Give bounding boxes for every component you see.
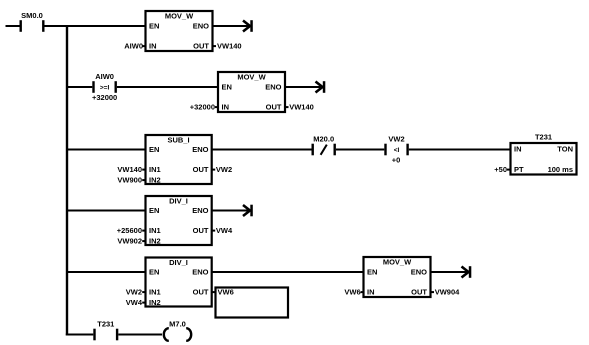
ENO arrow rung 5 (462, 266, 472, 278)
svg-text:DIV_I: DIV_I (169, 258, 188, 267)
svg-text:OUT: OUT (266, 103, 282, 112)
wire rung 2 to MOV_W (117, 86, 218, 88)
operand +50 at PT (494, 165, 510, 174)
wire ENO rung 2 (285, 86, 324, 88)
svg-text:EN: EN (149, 268, 159, 277)
svg-text:MOV_W: MOV_W (165, 12, 194, 21)
svg-text:+32000: +32000 (92, 93, 117, 102)
wire rung 5 from rail (67, 271, 146, 273)
operand VW2 at IN1 rung 5 (126, 288, 146, 297)
svg-text:100 ms: 100 ms (548, 165, 573, 174)
wire rung 6 from rail (66, 334, 94, 336)
wire rung 4 from rail (67, 210, 146, 212)
svg-text:VW6: VW6 (218, 288, 234, 297)
MOV_W block rung 5 (364, 257, 431, 297)
svg-text:IN1: IN1 (149, 226, 161, 235)
contact T231 (93, 320, 118, 341)
wire ENO DIV_I to MOV_W rung 5 (212, 271, 364, 273)
svg-text:EN: EN (367, 268, 377, 277)
svg-text:VW904: VW904 (435, 288, 460, 297)
operand VW140 at IN1 rung 3 (117, 165, 145, 174)
operand VW2 at OUT rung 3 (212, 165, 232, 174)
ENO arrow rung 4 (243, 205, 253, 217)
svg-text:VW902: VW902 (117, 237, 142, 246)
svg-text:ENO: ENO (265, 83, 281, 92)
svg-text:ENO: ENO (192, 268, 208, 277)
operand VW4 at OUT rung 4 (212, 226, 233, 235)
svg-text:+32000: +32000 (190, 103, 215, 112)
svg-text:MOV_W: MOV_W (237, 73, 266, 82)
operand edit rectangle (216, 288, 289, 318)
svg-text:VW2: VW2 (388, 135, 404, 144)
svg-text:T231: T231 (97, 320, 114, 329)
svg-text:EN: EN (149, 22, 159, 31)
left power rail stub rung 1 (6, 25, 20, 27)
DIV_I block rung 5 (146, 258, 212, 308)
svg-text:<I: <I (394, 147, 400, 154)
ENO arrow rung 2 (316, 81, 326, 93)
svg-text:IN2: IN2 (149, 237, 161, 246)
svg-text:IN: IN (514, 145, 522, 154)
wire ENO SUB_I to M20.0 (212, 149, 312, 151)
svg-text:+25600: +25600 (117, 226, 142, 235)
wire M20.0 to VW2 compare (336, 149, 384, 151)
branch rail (66, 25, 68, 335)
svg-text:VW2: VW2 (216, 165, 232, 174)
svg-text:IN2: IN2 (149, 298, 161, 307)
operand VW4 at IN2 rung 5 (126, 298, 146, 307)
wire T231 to coil (118, 334, 162, 336)
svg-text:SM0.0: SM0.0 (21, 11, 43, 20)
timer T231 TON block (511, 133, 577, 175)
svg-text:VW6: VW6 (344, 288, 360, 297)
svg-text:+50: +50 (494, 165, 507, 174)
svg-text:IN: IN (222, 103, 230, 112)
operand VW902 at IN2 rung 4 (117, 237, 145, 246)
svg-text:EN: EN (149, 145, 159, 154)
svg-text:OUT: OUT (193, 226, 209, 235)
svg-text:ENO: ENO (193, 22, 209, 31)
wire rung 1 to MOV_W (45, 25, 146, 27)
svg-text:IN: IN (367, 288, 375, 297)
svg-text:TON: TON (557, 145, 573, 154)
svg-text:MOV_W: MOV_W (383, 258, 412, 267)
svg-text:AIW0: AIW0 (124, 42, 143, 51)
svg-text:T231: T231 (535, 133, 552, 142)
coil M7.0 (164, 320, 191, 341)
svg-text:IN: IN (149, 42, 157, 51)
svg-text:DIV_I: DIV_I (169, 197, 188, 206)
wire VW2 compare to timer (409, 149, 511, 151)
operand VW140 at OUT rung 2 (285, 103, 314, 112)
svg-text:ENO: ENO (192, 206, 208, 215)
operand VW140 at OUT rung 1 (213, 42, 242, 51)
svg-text:OUT: OUT (193, 165, 209, 174)
operand VW900 at IN2 rung 3 (117, 176, 145, 185)
svg-text:VW2: VW2 (126, 288, 142, 297)
NC contact M20.0 (312, 135, 336, 156)
compare contact AIW0 >=I (92, 72, 117, 102)
operand VW6 at IN MOV_W rung 5 (344, 288, 364, 297)
svg-text:M20.0: M20.0 (313, 135, 334, 144)
svg-text:SUB_I: SUB_I (167, 136, 189, 145)
wire ENO rung 5 (431, 271, 471, 273)
svg-text:VW140: VW140 (217, 42, 242, 51)
svg-text:VW4: VW4 (126, 298, 143, 307)
operand VW904 at OUT rung 5 (431, 288, 461, 297)
svg-text:VW900: VW900 (117, 176, 142, 185)
svg-text:PT: PT (514, 165, 524, 174)
svg-text:+0: +0 (392, 156, 401, 165)
MOV_W block rung 2 (218, 72, 285, 112)
ENO arrow rung 1 (243, 20, 253, 32)
DIV_I block rung 4 (146, 196, 212, 246)
svg-text:IN1: IN1 (149, 165, 161, 174)
operand VW6 at OUT rung 5 (212, 288, 234, 297)
svg-text:AIW0: AIW0 (95, 72, 114, 81)
compare contact VW2 <I (384, 135, 409, 165)
svg-text:M7.0: M7.0 (169, 320, 186, 329)
svg-text:IN2: IN2 (149, 176, 161, 185)
svg-text:OUT: OUT (193, 288, 209, 297)
operand +25600 at IN1 rung 4 (117, 226, 146, 235)
svg-text:>=I: >=I (100, 85, 110, 92)
operand +32000 at IN rung 2 (190, 103, 219, 112)
wire rung 2 from rail (67, 86, 92, 88)
wire ENO rung 4 (212, 210, 252, 212)
SUB_I block rung 3 (146, 135, 212, 185)
svg-text:IN1: IN1 (149, 288, 161, 297)
wire rung 3 from rail (67, 149, 146, 151)
MOV_W block rung 1 (146, 11, 213, 51)
svg-text:VW140: VW140 (117, 165, 142, 174)
svg-text:VW4: VW4 (216, 226, 233, 235)
svg-text:ENO: ENO (192, 145, 208, 154)
svg-text:ENO: ENO (411, 268, 427, 277)
svg-text:EN: EN (149, 206, 159, 215)
svg-text:VW140: VW140 (289, 103, 314, 112)
wire ENO rung 1 (213, 25, 252, 27)
svg-text:EN: EN (222, 83, 232, 92)
operand AIW0 at IN rung 1 (124, 42, 146, 51)
svg-text:OUT: OUT (193, 42, 209, 51)
contact SM0.0 (20, 11, 45, 32)
svg-text:OUT: OUT (411, 288, 427, 297)
